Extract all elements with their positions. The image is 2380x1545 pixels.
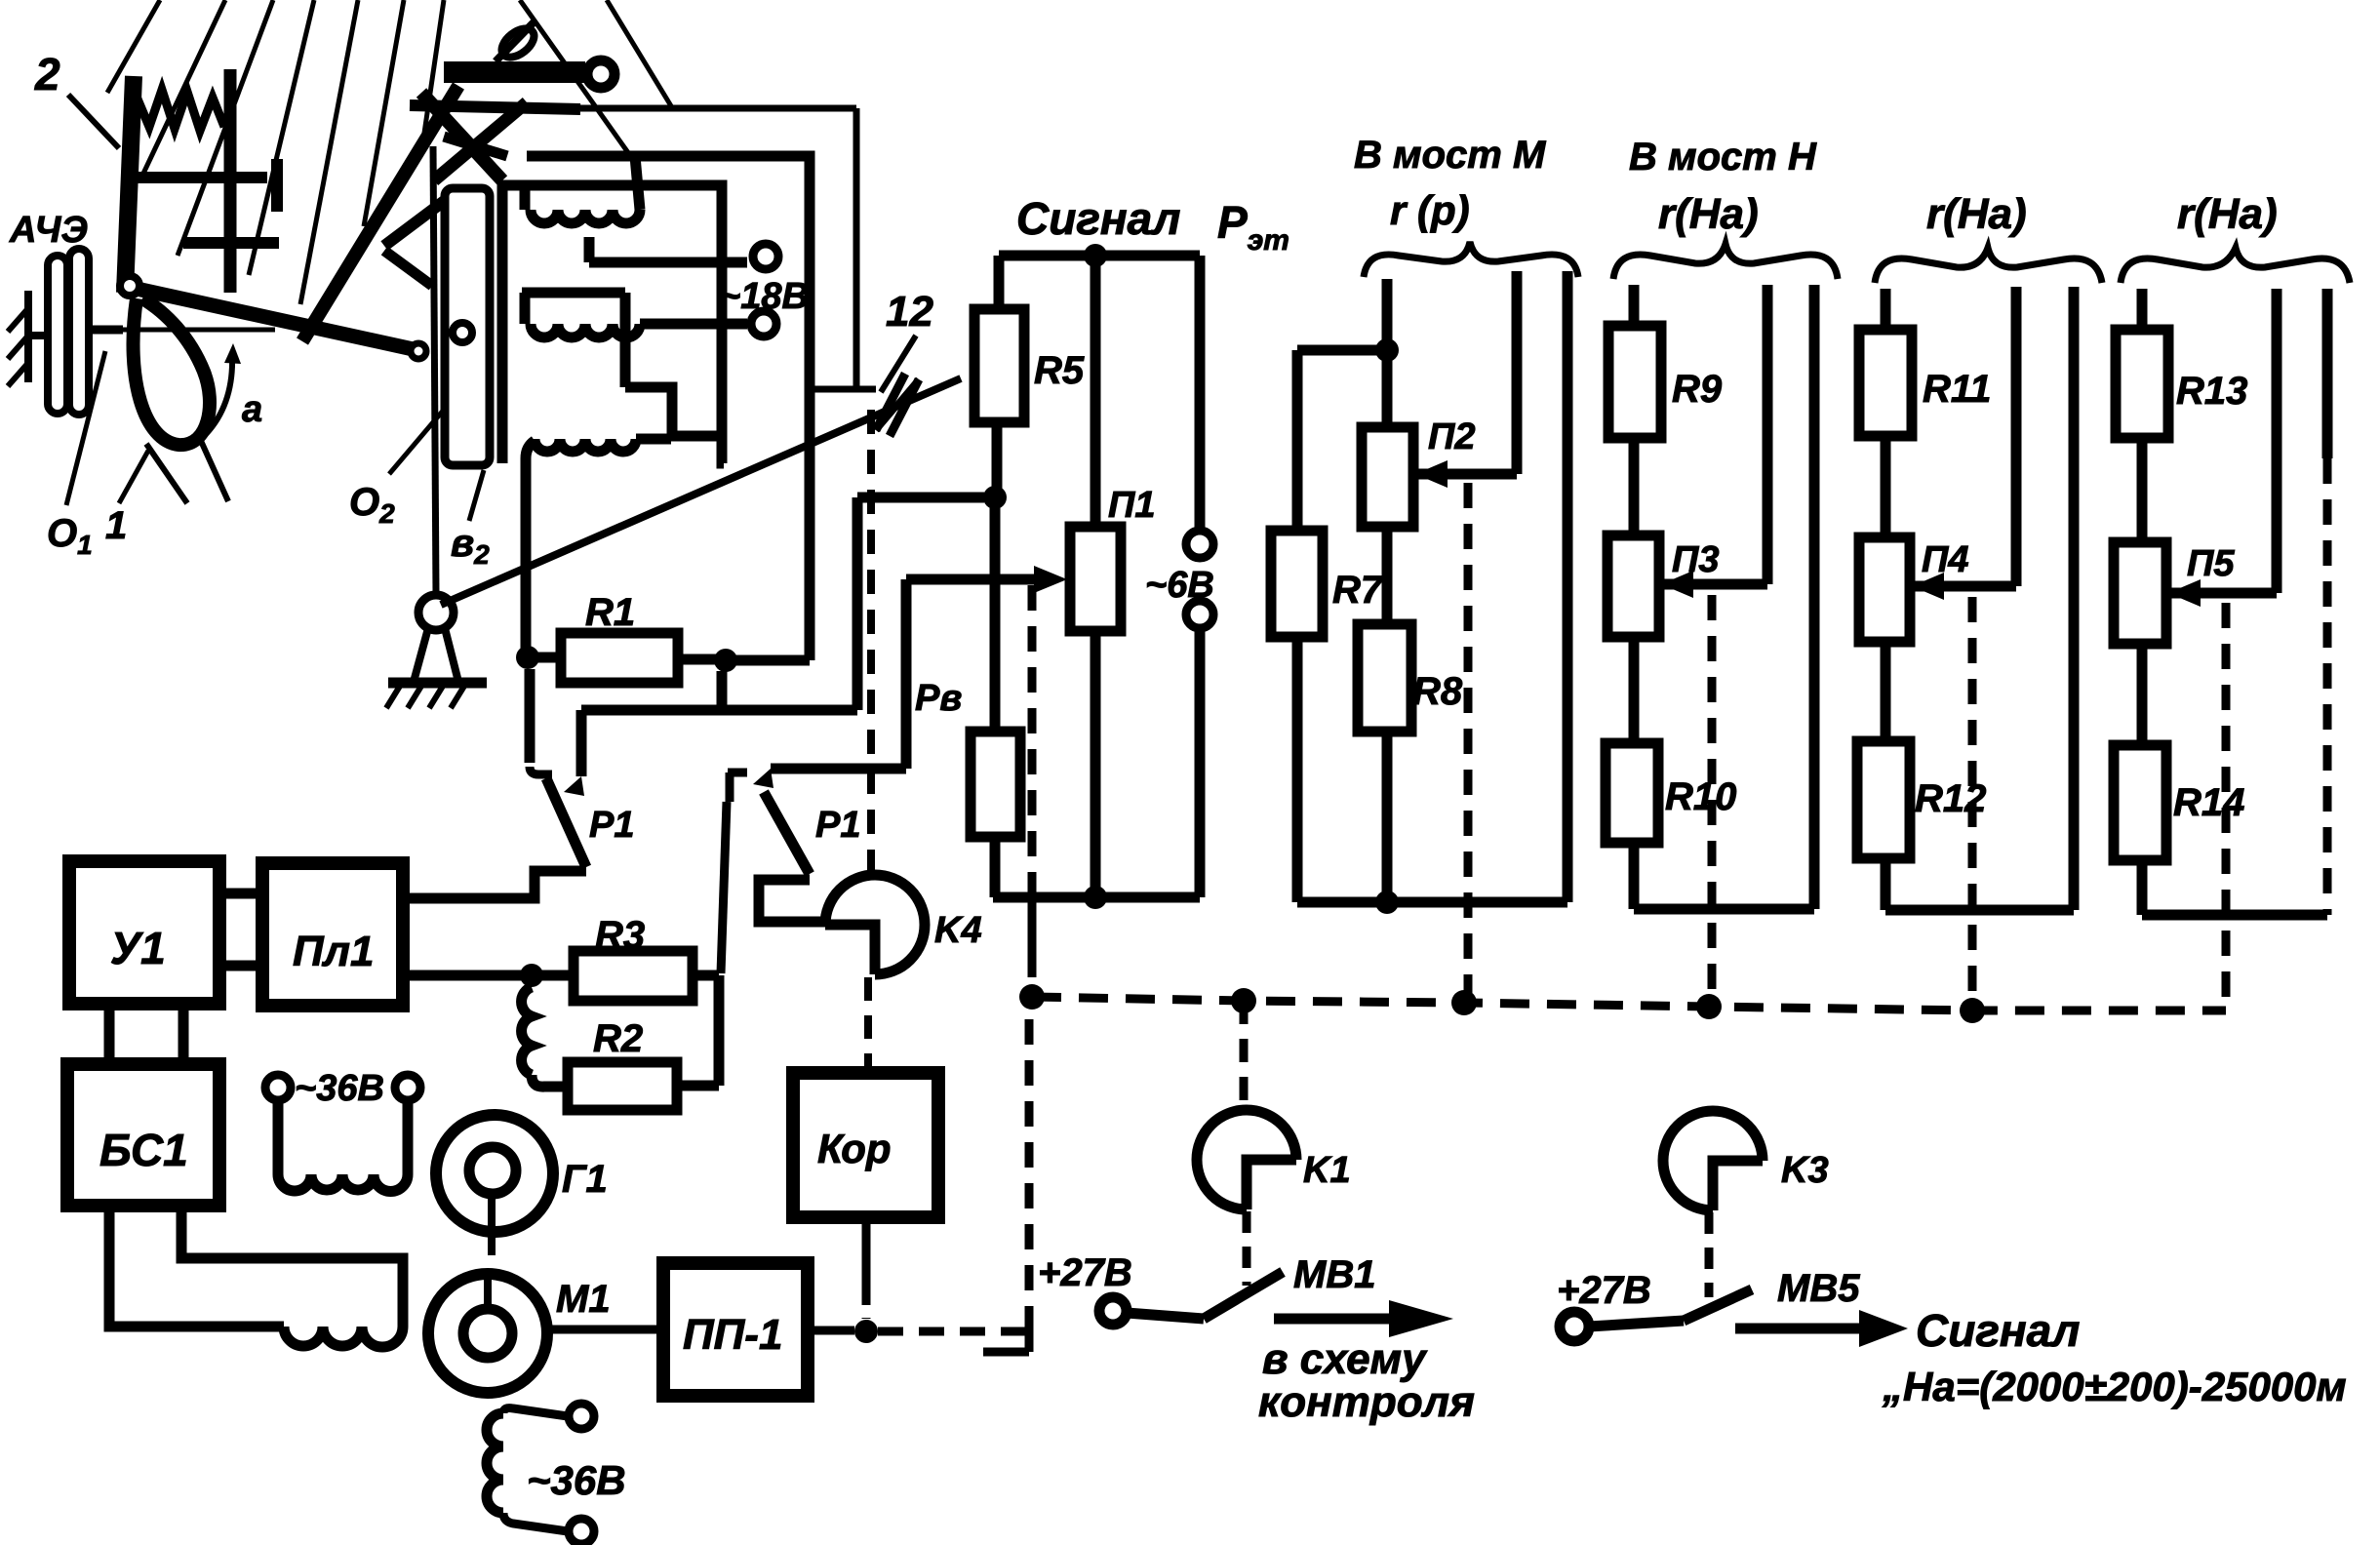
wire R12 to bottom <box>1881 858 1891 910</box>
aneroid wall mount <box>24 291 32 382</box>
resistor R8 <box>1358 624 1411 732</box>
potentiometer P3 <box>1607 535 1659 637</box>
motor M1 outer <box>428 1274 547 1393</box>
brace group D <box>1875 248 2102 283</box>
node: R1 right junction <box>714 649 737 672</box>
node bus at 1752 <box>1696 994 1722 1019</box>
wire node down to RV <box>990 497 1001 732</box>
wire PP-1 to node <box>808 1327 854 1335</box>
wire: B left branch top corner <box>1297 345 1387 356</box>
node bus at 1501 <box>1451 990 1477 1015</box>
wire terminal to switch MV1 <box>1127 1313 1204 1319</box>
svg-text:~36B: ~36B <box>295 1068 384 1109</box>
svg-text:П5: П5 <box>2187 543 2235 584</box>
wire node to R3 <box>532 971 574 981</box>
wire: E column top stub <box>2137 289 2148 330</box>
wire: transformer outer loop (primary) <box>527 156 810 660</box>
svg-text:Сигнал: Сигнал <box>1016 193 1180 244</box>
end ring of bar <box>587 60 615 88</box>
dashed wiper link to bus <box>1464 483 1473 995</box>
svg-text:r(Hа): r(Hа) <box>1926 190 2027 238</box>
svg-text:K3: K3 <box>1781 1150 1829 1191</box>
coil W2 (middle winding) <box>531 324 640 337</box>
wire: C wiper riser <box>1763 285 1773 584</box>
wire: B left vertical <box>1292 350 1303 531</box>
wire: D wiper riser <box>2011 287 2022 586</box>
wire R13 to P5 <box>2137 438 2148 542</box>
svg-text:контроля: контроля <box>1258 1378 1475 1426</box>
anchor beam <box>127 172 267 183</box>
wire node to P2 <box>1382 350 1393 427</box>
SEC-R1-P1 <box>403 497 1067 973</box>
Kor bottom lead <box>862 1217 871 1286</box>
switch blade MV1 <box>1204 1272 1283 1319</box>
wire: top thin link from bar to sensor loop <box>580 105 856 112</box>
thin centerline <box>109 328 275 333</box>
wiper P5 with arrow <box>2166 588 2277 599</box>
svg-text:Сигнал: Сигнал <box>1916 1305 2080 1356</box>
node bus at 1058 <box>1019 984 1045 1010</box>
main lever arm <box>137 289 417 350</box>
wire R2 right <box>677 1081 719 1091</box>
aneroid capsule 2 <box>69 249 89 415</box>
node top <box>1084 244 1107 267</box>
adjuster screw oval <box>496 23 538 63</box>
terminal circle MV1 <box>1099 1297 1127 1325</box>
svg-text:R5: R5 <box>1034 349 1085 392</box>
resistor R13 <box>2116 330 2168 438</box>
dashed riser hook <box>983 1331 1029 1352</box>
anchor shelf <box>183 237 279 249</box>
coil W1 (top winding) <box>531 210 640 223</box>
transformer winding ~36V upper <box>278 1100 408 1174</box>
leader for 2 <box>68 95 119 148</box>
terminal circle ~6V upper <box>1186 531 1213 558</box>
SEC-GROUPB <box>1271 134 1578 995</box>
wire M1 to PP-1 <box>547 1326 663 1334</box>
dial rays (thin scale lines) <box>107 0 160 93</box>
brace group B <box>1364 242 1578 277</box>
switch blade MV5 <box>1684 1289 1752 1321</box>
wire: right branch lower <box>1195 628 1206 897</box>
wire: D column top stub <box>1881 289 1891 330</box>
dashed wire node to riser <box>878 1327 1026 1336</box>
coil W1 riser <box>520 185 531 210</box>
wires U1 to Pl1 <box>219 893 262 966</box>
resistor R9 <box>1608 326 1661 438</box>
node at PP-1 output <box>854 1320 878 1343</box>
svg-text:MB1: MB1 <box>1293 1253 1375 1296</box>
dashed wiper link C to bus <box>1708 595 1717 999</box>
wire: C column top stub <box>1629 285 1640 326</box>
wire P3 to R10 <box>1629 637 1640 743</box>
terminal circle ~18V lower <box>751 311 776 337</box>
switch P1 first: upper contact with arrow from rail <box>576 710 587 776</box>
svg-text:R1: R1 <box>585 591 635 634</box>
svg-text:r(Hа): r(Hа) <box>1658 190 1759 238</box>
svg-text:2: 2 <box>34 49 60 99</box>
wire: P1 pot column lower <box>1091 631 1101 897</box>
wire: E right vertical dashed part <box>2323 458 2332 915</box>
SEC-GROUPA <box>915 193 1289 991</box>
resistor R10 <box>1606 743 1658 843</box>
dashed link K4 to Kor <box>864 977 872 1071</box>
switch P1 second: blade <box>764 792 810 874</box>
wire: D right vertical <box>2069 287 2080 910</box>
dashed wiper link P1 pot down along RV column <box>1028 585 1037 893</box>
terminal circle ~6V lower <box>1186 601 1213 628</box>
svg-text:П2: П2 <box>1428 416 1475 457</box>
relay K4 coil circle with notch <box>825 875 925 974</box>
dashed wiper link E down to bus corner <box>2222 603 2231 1010</box>
wire: D bottom <box>1885 905 2074 916</box>
ground hatching <box>386 683 466 708</box>
wire: right branch upper <box>1195 256 1206 531</box>
wire R14 to bottom <box>2137 860 2148 915</box>
wire: common rail y728 <box>581 705 857 716</box>
node R5 bottom <box>983 486 1007 509</box>
coil W3 right lead <box>636 434 671 445</box>
wire: C bottom <box>1634 904 1814 915</box>
aneroid capsule 1 <box>48 256 67 414</box>
G1 shaft stub <box>488 1192 496 1255</box>
svg-text:Г1: Г1 <box>562 1158 608 1201</box>
svg-text:В мост M: В мост M <box>1354 134 1547 177</box>
ground pivot circle <box>418 595 454 630</box>
wiper P3 with arrow <box>1659 579 1767 590</box>
arrow to signal output <box>1735 1324 1859 1334</box>
svg-text:R11: R11 <box>1923 368 1991 411</box>
svg-text:в2: в2 <box>451 522 490 570</box>
brace group E <box>2121 248 2350 283</box>
generator G1 inner <box>469 1147 516 1194</box>
wire: W3 left lead down to R1 junction <box>526 441 535 657</box>
aneroid stem <box>89 326 123 335</box>
block BS1 <box>67 1064 219 1206</box>
brace group C <box>1613 244 1838 279</box>
wire to R1 <box>528 653 561 663</box>
block Pl1 <box>262 863 403 1006</box>
svg-text:~36B: ~36B <box>527 1457 626 1503</box>
SEC-TRANSFORMER <box>349 108 961 871</box>
potentiometer P1 <box>1070 527 1121 631</box>
svg-text:+27B: +27B <box>1557 1269 1651 1312</box>
wire R3 right <box>693 971 719 981</box>
wire P2 to R8 <box>1382 527 1393 624</box>
svg-text:Кор: Кор <box>817 1126 892 1171</box>
relay K1 coil circle with notch <box>1197 1110 1296 1209</box>
svg-text:П1: П1 <box>1108 485 1155 526</box>
terminal circle ~36V lower top <box>569 1404 594 1429</box>
switch P1 first: output staircase to Pl1 <box>403 871 586 898</box>
svg-text:АЧЭ: АЧЭ <box>9 210 88 251</box>
teardrop spring loop <box>134 298 210 445</box>
generator G1 outer <box>436 1115 553 1232</box>
block Kor (corrector) <box>793 1073 938 1217</box>
switch P1 second: output staircase to K4 <box>759 880 825 922</box>
pivot O2 on bar <box>453 323 472 342</box>
block PP-1 <box>663 1263 808 1396</box>
motor M1 inner <box>463 1309 512 1358</box>
dashed riser to bus <box>1025 1012 1034 1331</box>
dashed K1 to MV1 <box>1243 1211 1251 1286</box>
svg-text:K1: K1 <box>1303 1150 1351 1191</box>
wire: P1 pot column upper <box>1091 256 1101 527</box>
node bus at 1275 <box>1231 988 1256 1013</box>
leads to terminals <box>503 1408 568 1416</box>
svg-text:В мост H: В мост H <box>1629 136 1817 178</box>
switch P1 second: contact hook <box>728 772 747 802</box>
svg-text:a: a <box>242 389 262 430</box>
coil W2 left riser <box>520 293 531 324</box>
wire R3-R2 right leg <box>714 975 725 1086</box>
dashed control bus <box>1032 997 2226 1010</box>
leaders to O1 and 1 <box>66 351 105 505</box>
ground base <box>388 678 487 689</box>
rod 12 diagonal from ground pivot to flag <box>441 378 961 605</box>
armature bar b2 <box>445 188 490 465</box>
svg-text:Пл1: Пл1 <box>293 928 375 975</box>
svg-text:O2: O2 <box>349 481 395 529</box>
coil W3 (bottom winding) <box>535 439 636 452</box>
dashed mechanical link from flag down to relay K4 <box>867 410 875 871</box>
potentiometer P5 <box>2114 542 2166 644</box>
svg-text:r(Hа): r(Hа) <box>2177 190 2278 238</box>
resistor R12 <box>1857 741 1910 858</box>
wire R1 right <box>678 654 726 665</box>
wire: B right vertical <box>1563 271 1573 902</box>
leader O2 <box>389 410 444 474</box>
potentiometer P4 <box>1859 537 1910 642</box>
svg-text:P1: P1 <box>589 805 634 846</box>
mechanism knot strokes <box>421 93 502 180</box>
resistor R3 <box>574 951 693 1001</box>
wire P4 to R12 <box>1881 642 1891 741</box>
terminal circle ~36V lower bottom <box>569 1519 594 1544</box>
terminal circle ~36V upper left <box>265 1075 291 1100</box>
wire: upper terminal line <box>589 257 747 268</box>
svg-text:R7: R7 <box>1332 569 1384 612</box>
core jog lines <box>625 387 720 436</box>
relay K3 coil circle with notch <box>1663 1111 1763 1210</box>
wire: E bottom <box>2142 910 2327 921</box>
dashed drop to K1 <box>1240 1001 1249 1107</box>
wiper P2 with arrow <box>1413 469 1517 480</box>
wire top to R5 <box>994 256 1005 309</box>
winding ~36V lower <box>487 1413 503 1513</box>
switch P1 second: contact from P1 wiper line with arrow <box>771 764 906 774</box>
flag break symbol on rod 12 <box>876 374 905 430</box>
dashed K3 to MV5 <box>1705 1212 1714 1297</box>
dashed wiper link D to bus <box>1968 597 1977 1001</box>
BS1 to M1 winding loop <box>109 1206 284 1327</box>
svg-text:ПП-1: ПП-1 <box>683 1311 782 1359</box>
resistor R1 <box>561 633 678 683</box>
switch P1 first: blade <box>546 778 586 867</box>
svg-text:Pэт: Pэт <box>1217 197 1289 257</box>
wire RV to bottom <box>990 837 1001 897</box>
svg-text:~6B: ~6B <box>1145 565 1214 606</box>
link rod from mechanism to ground pivot <box>433 146 436 594</box>
svg-text:K4: K4 <box>934 910 982 951</box>
wire: junction down to common rail <box>717 671 728 710</box>
node B bottom <box>1375 891 1399 914</box>
svg-text:M1: M1 <box>556 1278 611 1321</box>
coil W1 right lead up to primary loop <box>635 156 640 210</box>
lever end ring <box>411 343 426 359</box>
node: R1 left junction <box>516 646 539 669</box>
wire: W2 to terminal <box>640 319 747 330</box>
arrow to control circuit <box>1274 1314 1389 1325</box>
svg-text:R13: R13 <box>2176 370 2247 413</box>
terminal circle ~36V upper right <box>395 1075 420 1100</box>
wire R7 to bottom <box>1292 637 1303 902</box>
svg-text:12: 12 <box>886 288 933 336</box>
node R3 <box>520 964 543 987</box>
resistor R7 <box>1271 531 1323 637</box>
wire Pl1 to R3 node <box>403 971 532 981</box>
M1 shaft stub <box>484 1274 492 1309</box>
svg-text:„Hа=(2000±200)-25000м: „Hа=(2000±200)-25000м <box>1882 1364 2347 1409</box>
wire R9 to P3 <box>1629 438 1640 535</box>
wire: E right vertical solid part <box>2322 289 2333 458</box>
spring zigzag <box>137 90 224 131</box>
svg-text:БС1: БС1 <box>99 1125 188 1175</box>
wire R8 to bottom <box>1382 732 1393 902</box>
wire: group A top <box>999 251 1200 261</box>
SEC-BUS-RELAYS <box>1019 984 2347 1426</box>
wire R11 to P4 <box>1881 436 1891 537</box>
wire: y510 feed to R5 node <box>857 493 984 503</box>
wires U1 to BS1 <box>109 1004 183 1064</box>
potentiometer P2 <box>1362 427 1413 527</box>
choke coil left of R2 <box>522 987 532 1075</box>
SEC-GROUPCDE <box>1606 136 2350 1010</box>
svg-text:O1: O1 <box>47 512 93 560</box>
svg-text:R10: R10 <box>1665 775 1736 818</box>
wire: transformer inner loop <box>502 185 724 463</box>
ground pivot legs <box>414 628 458 682</box>
wire: wiper riser <box>1512 271 1523 474</box>
wire R5 to node <box>992 422 1003 497</box>
resistor R11 <box>1859 330 1912 436</box>
svg-text:в схему: в схему <box>1262 1335 1428 1383</box>
wire coil to R2 <box>532 1075 568 1087</box>
wire: P1 wiper feed horizontal with arrow into P1 pot <box>906 574 1036 585</box>
wire: B center stub above node <box>1382 279 1393 350</box>
terminal circle ~18V upper <box>753 244 778 269</box>
resistor RV <box>971 732 1020 837</box>
wire P5 to R14 <box>2137 644 2148 745</box>
wire: sensor loop right thin vertical <box>853 108 860 387</box>
lever pivot ring <box>120 276 139 296</box>
wire: P1 wiper feed riser <box>901 579 912 769</box>
svg-text:R8: R8 <box>1412 670 1463 713</box>
svg-text:r (p): r (p) <box>1390 187 1470 233</box>
counterweight bar <box>444 61 585 83</box>
svg-text:~18B: ~18B <box>719 276 809 317</box>
block U1 (amplifier) <box>69 861 219 1004</box>
svg-text:+27B: +27B <box>1038 1251 1132 1294</box>
svg-text:P1: P1 <box>815 805 860 846</box>
wire: junction to primary loop <box>726 655 810 666</box>
bus stub below group A <box>1028 897 1037 958</box>
wire: rod 12 horizontal to flag <box>810 386 876 393</box>
svg-text:R14: R14 <box>2173 781 2244 824</box>
svg-text:MB5: MB5 <box>1777 1267 1860 1310</box>
leader line for 12 <box>881 336 916 392</box>
svg-text:R9: R9 <box>1672 368 1723 411</box>
pointer needle diagonal <box>302 86 458 341</box>
wire: P1 second hook down to R3 node <box>721 802 727 973</box>
wire: E wiper riser <box>2272 289 2282 593</box>
switch P1 first: fixed contact from R1 left <box>525 669 535 763</box>
svg-text:У1: У1 <box>110 923 166 973</box>
resistor R5 <box>974 309 1024 422</box>
resistor R2 <box>568 1062 677 1110</box>
wire: rail riser to y510 feed <box>853 497 863 710</box>
wire: B bottom <box>1297 897 1567 908</box>
node bottom <box>1084 886 1107 909</box>
svg-text:П4: П4 <box>1922 539 1968 580</box>
wire R10 to bottom <box>1629 843 1640 909</box>
wire terminal to switch MV5 <box>1589 1321 1684 1327</box>
leader b2 <box>469 470 484 521</box>
SEC-BLOCKS <box>67 861 1029 1544</box>
wire: group A bottom <box>993 892 1200 903</box>
svg-text:П3: П3 <box>1672 539 1719 580</box>
SEC-MECH <box>8 0 673 560</box>
node bus at 2022 <box>1960 998 1985 1023</box>
anchor end plate <box>271 159 283 212</box>
svg-text:R3: R3 <box>595 914 645 957</box>
wiper P4 with arrow <box>1910 581 2016 592</box>
terminal circle MV5 <box>1560 1312 1589 1341</box>
wire: C right vertical <box>1809 285 1820 909</box>
alpha angle arc with arrow <box>199 355 232 441</box>
resistor R14 <box>2114 745 2166 860</box>
svg-text:R2: R2 <box>593 1017 643 1060</box>
node B top <box>1375 338 1399 362</box>
anchor post <box>224 69 237 293</box>
svg-text:1: 1 <box>105 504 127 547</box>
svg-text:Pв: Pв <box>915 678 962 719</box>
lever bar O1 <box>125 76 134 293</box>
